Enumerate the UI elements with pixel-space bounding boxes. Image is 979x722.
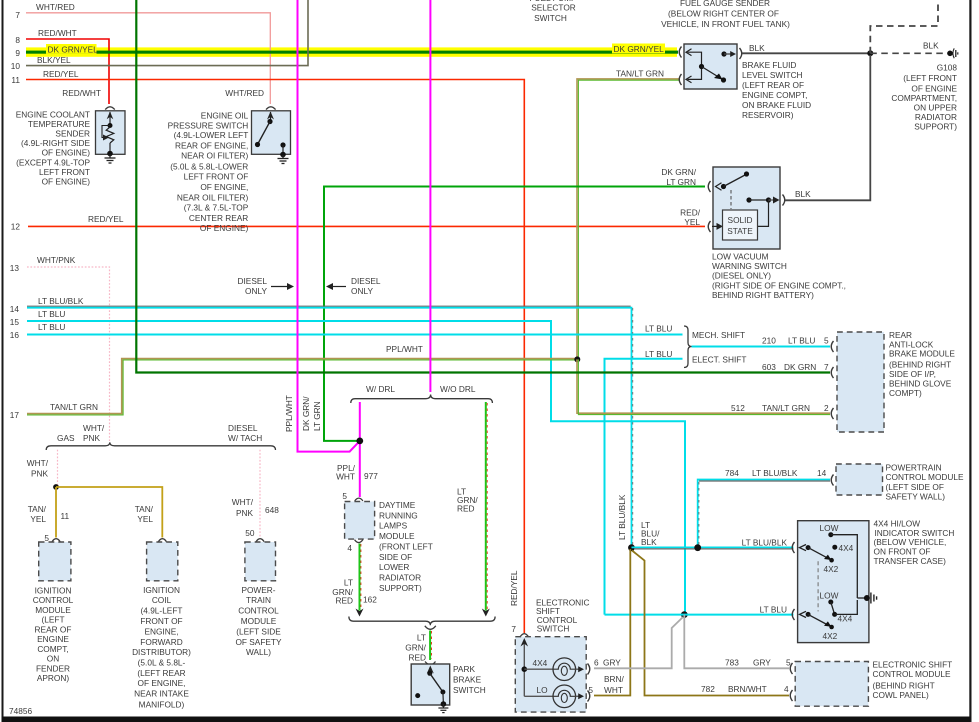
svg-text:TRAIN: TRAIN bbox=[246, 595, 271, 605]
svg-text:977: 977 bbox=[364, 471, 378, 481]
svg-text:SENDER: SENDER bbox=[55, 129, 90, 139]
svg-text:SWITCH: SWITCH bbox=[537, 624, 570, 634]
RED/YEL label at low vacuum switch bbox=[680, 208, 701, 228]
wire 13 WHT/PNK dotted bbox=[27, 267, 110, 441]
svg-text:14: 14 bbox=[10, 304, 20, 314]
svg-text:FORWARD: FORWARD bbox=[140, 637, 182, 647]
svg-text:MODULE: MODULE bbox=[35, 605, 71, 615]
svg-text:SIDE OF I/P,: SIDE OF I/P, bbox=[889, 369, 936, 379]
svg-text:LT BLU: LT BLU bbox=[38, 309, 65, 319]
connector end dot bbox=[947, 48, 958, 58]
svg-text:LT BLU/BLK: LT BLU/BLK bbox=[752, 468, 798, 478]
pin arc RABM pin 5 bbox=[831, 341, 833, 352]
wire TAN/LT GRN from brake fluid switch bbox=[577, 79, 680, 358]
svg-text:RED/YEL: RED/YEL bbox=[88, 214, 124, 224]
svg-text:COWL PANEL): COWL PANEL) bbox=[873, 690, 929, 700]
svg-text:4: 4 bbox=[347, 543, 352, 553]
svg-text:LT BLU/BLK: LT BLU/BLK bbox=[38, 296, 84, 306]
svg-text:TAN/LT GRN: TAN/LT GRN bbox=[762, 403, 810, 413]
svg-text:7: 7 bbox=[511, 624, 516, 634]
svg-text:DIESEL: DIESEL bbox=[351, 276, 381, 286]
svg-text:DK GRN/YEL: DK GRN/YEL bbox=[48, 44, 99, 54]
svg-text:(4.9L-LEFT: (4.9L-LEFT bbox=[141, 606, 183, 616]
pin arc 4x4 switch bottom bbox=[792, 609, 794, 620]
svg-text:LT GRN: LT GRN bbox=[666, 177, 696, 187]
svg-text:(LEFT REAR: (LEFT REAR bbox=[137, 668, 185, 678]
svg-text:RED/: RED/ bbox=[680, 208, 701, 218]
svg-text:SELECTOR: SELECTOR bbox=[531, 3, 576, 13]
svg-text:OF ENGINE,: OF ENGINE, bbox=[200, 182, 248, 192]
svg-text:LT GRN: LT GRN bbox=[312, 401, 322, 431]
svg-text:OF ENGINE): OF ENGINE) bbox=[42, 148, 91, 158]
svg-text:CONTROL: CONTROL bbox=[238, 606, 279, 616]
pin arc shift switch pin 6 bbox=[588, 664, 590, 675]
svg-text:OF ENGINE): OF ENGINE) bbox=[42, 177, 91, 187]
svg-text:OF SAFETY: OF SAFETY bbox=[235, 637, 282, 647]
svg-text:50: 50 bbox=[245, 528, 255, 538]
svg-text:RADIATOR: RADIATOR bbox=[915, 112, 957, 122]
svg-text:CENTER REAR: CENTER REAR bbox=[189, 213, 248, 223]
svg-text:TAN/LT GRN: TAN/LT GRN bbox=[50, 402, 98, 412]
svg-text:RED/WHT: RED/WHT bbox=[38, 28, 77, 38]
svg-text:603: 603 bbox=[762, 362, 776, 372]
wire 14 LT BLU/BLK black stripe bbox=[27, 305, 631, 307]
svg-text:IGNITION: IGNITION bbox=[143, 585, 180, 595]
svg-text:SUPPORT): SUPPORT) bbox=[379, 583, 422, 593]
svg-text:ENGINE OIL: ENGINE OIL bbox=[201, 111, 249, 121]
park brake switch box bbox=[411, 664, 450, 707]
svg-text:ENGINE COMPT,: ENGINE COMPT, bbox=[742, 90, 807, 100]
wire 15 LT BLU bbox=[27, 321, 685, 615]
svg-text:SAFETY WALL): SAFETY WALL) bbox=[886, 491, 946, 501]
svg-text:FUEL GAUGE SENDER: FUEL GAUGE SENDER bbox=[680, 0, 770, 8]
rear anti-lock brake module box bbox=[837, 332, 884, 432]
DIESEL ONLY label left with arrow bbox=[237, 276, 294, 296]
brace W DRL bbox=[351, 395, 493, 404]
svg-text:782: 782 bbox=[701, 684, 715, 694]
svg-text:MODULE: MODULE bbox=[379, 531, 415, 541]
WHT/PNK label 3 bbox=[232, 497, 254, 518]
svg-text:WHT/: WHT/ bbox=[27, 458, 49, 468]
svg-text:ON: ON bbox=[47, 654, 59, 664]
svg-text:5: 5 bbox=[588, 685, 593, 695]
brace gas/diesel bbox=[46, 442, 275, 450]
svg-text:W/ DRL: W/ DRL bbox=[366, 384, 395, 394]
LT GRN/RED label center bbox=[405, 633, 426, 663]
svg-text:VEHICLE, IN FRONT FUEL TANK): VEHICLE, IN FRONT FUEL TANK) bbox=[661, 19, 790, 29]
svg-text:(5.0L & 5.8L-: (5.0L & 5.8L- bbox=[138, 658, 186, 668]
pin arc low vacuum DK GRN bbox=[708, 181, 710, 192]
svg-text:512: 512 bbox=[731, 403, 745, 413]
svg-text:(FRONT LEFT: (FRONT LEFT bbox=[379, 541, 433, 551]
engine oil pressure switch box bbox=[252, 107, 291, 155]
electronic shift control switch label bbox=[536, 598, 589, 634]
pin arc RABM pin 7 bbox=[831, 367, 833, 378]
wire 8 RED/WHT bbox=[26, 39, 109, 104]
svg-text:CONTROL MODULE: CONTROL MODULE bbox=[873, 669, 952, 679]
svg-text:DK GRN/YEL: DK GRN/YEL bbox=[614, 44, 665, 54]
svg-text:BRN/: BRN/ bbox=[604, 674, 625, 684]
engine oil pressure switch label bbox=[168, 111, 249, 234]
pin arc PCM pin 14 bbox=[831, 475, 833, 486]
svg-text:NEAR OIL FILTER): NEAR OIL FILTER) bbox=[177, 192, 249, 202]
svg-text:(BEHIND RIGHT: (BEHIND RIGHT bbox=[889, 360, 951, 370]
wire TAN/YEL to ignition control module bbox=[55, 487, 57, 538]
red stripe DRL wire bbox=[360, 544, 362, 610]
svg-text:16: 16 bbox=[10, 330, 20, 340]
784 vertical black stripe dashes bbox=[698, 482, 700, 546]
svg-text:(5.0L & 5.8L-LOWER: (5.0L & 5.8L-LOWER bbox=[170, 161, 248, 171]
svg-text:5: 5 bbox=[824, 336, 829, 346]
svg-text:WHT/RED: WHT/RED bbox=[225, 88, 264, 98]
wire LT GRN/RED right (W/O DRL) bbox=[485, 402, 487, 611]
svg-text:WHT/RED: WHT/RED bbox=[36, 2, 75, 12]
svg-text:13: 13 bbox=[10, 263, 20, 273]
svg-text:TEMPERATURE: TEMPERATURE bbox=[28, 119, 91, 129]
svg-text:BLK: BLK bbox=[641, 537, 657, 547]
ignition coil label bbox=[132, 585, 191, 710]
pin arc powertrain control module left bbox=[256, 539, 264, 542]
svg-text:LT BLU: LT BLU bbox=[760, 604, 787, 614]
LT BLU/ BLK stacked label bbox=[641, 520, 660, 547]
wire TAN/YEL to ignition coil bbox=[56, 487, 162, 538]
svg-text:OF ENGINE,: OF ENGINE, bbox=[138, 678, 186, 688]
svg-text:DK GRN/: DK GRN/ bbox=[661, 167, 696, 177]
wire LT BLU ELECT. SHIFT bbox=[605, 359, 683, 615]
svg-text:4: 4 bbox=[784, 684, 789, 694]
wire 10 BLK/YEL bbox=[26, 0, 308, 66]
svg-text:(7.3L & 7.5L-TOP: (7.3L & 7.5L-TOP bbox=[184, 203, 249, 213]
electronic shift control module box bbox=[795, 662, 868, 707]
pin arc DRL pin 4 bbox=[355, 540, 363, 543]
svg-text:BRAKE FLUID: BRAKE FLUID bbox=[742, 60, 796, 70]
svg-text:FRONT OF: FRONT OF bbox=[140, 616, 182, 626]
svg-text:(4.9L-LOWER LEFT: (4.9L-LOWER LEFT bbox=[174, 130, 249, 140]
pin arc low vacuum BLK out bbox=[783, 195, 785, 206]
svg-text:648: 648 bbox=[265, 505, 279, 515]
svg-text:RUNNING: RUNNING bbox=[379, 510, 418, 520]
svg-text:LO: LO bbox=[537, 685, 549, 695]
svg-text:9: 9 bbox=[15, 48, 20, 58]
svg-text:RADIATOR: RADIATOR bbox=[379, 573, 421, 583]
784 black stripe bbox=[699, 480, 830, 482]
svg-text:ON BRAKE FLUID: ON BRAKE FLUID bbox=[742, 100, 811, 110]
svg-text:7: 7 bbox=[15, 10, 20, 20]
TAN/YEL label 1 bbox=[28, 504, 47, 524]
pin arc shift module pin 4 bbox=[790, 690, 792, 701]
svg-text:5: 5 bbox=[342, 491, 347, 501]
svg-text:YEL: YEL bbox=[684, 217, 700, 227]
svg-text:STATE: STATE bbox=[727, 226, 753, 236]
svg-text:(LEFT: (LEFT bbox=[41, 615, 64, 625]
svg-text:GRY: GRY bbox=[603, 658, 621, 668]
arrow down LT GRN/RED 2 bbox=[482, 609, 490, 617]
svg-text:11: 11 bbox=[61, 511, 70, 521]
svg-text:PARK: PARK bbox=[453, 664, 475, 674]
svg-text:12: 12 bbox=[11, 222, 21, 232]
wire PPL/WHT 2 vertical (W/O DRL) bbox=[429, 0, 431, 392]
wire 784 LT BLU/BLK to PCM pin 14 bbox=[698, 480, 830, 547]
wire GRY from dot3 to module pin 5 bbox=[684, 615, 789, 669]
electronic shift control module label bbox=[873, 660, 953, 701]
wire BRN/WHT from dot1 to switch pin 5 bbox=[594, 549, 630, 696]
svg-text:BLK: BLK bbox=[923, 41, 939, 51]
svg-text:LAMPS: LAMPS bbox=[379, 521, 408, 531]
ignition coil box bbox=[147, 542, 178, 581]
svg-text:4X4: 4X4 bbox=[839, 543, 854, 553]
svg-text:BLK/YEL: BLK/YEL bbox=[37, 55, 71, 65]
WHT/PNK label 2 bbox=[27, 458, 49, 479]
svg-text:PPL/WHT: PPL/WHT bbox=[284, 395, 294, 432]
svg-text:(RIGHT SIDE OF ENGINE COMPT.,: (RIGHT SIDE OF ENGINE COMPT., bbox=[712, 280, 846, 290]
svg-text:TAN/: TAN/ bbox=[135, 504, 154, 514]
wire 210 LT BLU to RABM pin 5 bbox=[692, 346, 831, 348]
wire WHT/PNK dotted to ignition bbox=[57, 450, 59, 486]
LT GRN/RED label right col bbox=[457, 487, 478, 514]
svg-text:POWER-: POWER- bbox=[241, 585, 275, 595]
low vacuum warning switch label bbox=[712, 251, 846, 300]
svg-text:ONLY: ONLY bbox=[351, 286, 373, 296]
low vacuum warning switch box bbox=[712, 167, 780, 249]
svg-text:4X2: 4X2 bbox=[824, 564, 839, 574]
svg-text:LT BLU/BLK: LT BLU/BLK bbox=[742, 537, 788, 547]
svg-text:WHT: WHT bbox=[604, 685, 623, 695]
G108 label bbox=[891, 63, 957, 132]
pin arc shift module pin 5 bbox=[790, 663, 792, 674]
svg-text:(BEHIND RIGHT: (BEHIND RIGHT bbox=[873, 681, 935, 691]
svg-text:RED/YEL: RED/YEL bbox=[43, 69, 79, 79]
svg-text:15: 15 bbox=[10, 317, 20, 327]
svg-text:W/O DRL: W/O DRL bbox=[440, 384, 476, 394]
wire BLK low vacuum to G108 bbox=[785, 55, 870, 200]
svg-text:LOW: LOW bbox=[820, 523, 839, 533]
wire BLK dashed up from junction bbox=[870, 0, 938, 53]
svg-text:RED: RED bbox=[335, 596, 353, 606]
wire WHT/PNK 648 dotted to PCM bbox=[259, 450, 261, 538]
svg-text:DIESEL: DIESEL bbox=[228, 423, 258, 433]
svg-text:MECH. SHIFT: MECH. SHIFT bbox=[692, 330, 745, 340]
svg-text:LEFT FRONT OF: LEFT FRONT OF bbox=[184, 172, 249, 182]
svg-text:COMPT,: COMPT, bbox=[37, 644, 68, 654]
svg-text:17: 17 bbox=[10, 410, 20, 420]
pin arc RABM pin 2 bbox=[831, 408, 833, 419]
svg-text:GRY: GRY bbox=[753, 658, 771, 668]
arrow down LT GRN/RED 1 bbox=[356, 609, 364, 617]
svg-text:LT BLU/BLK: LT BLU/BLK bbox=[617, 494, 627, 540]
svg-text:(LEFT SIDE: (LEFT SIDE bbox=[236, 627, 281, 637]
wire GRY from dot3 to switch pin 6 bbox=[594, 617, 683, 668]
wire 17 TAN/LT GRN bus bbox=[27, 359, 576, 414]
brake fluid level switch label bbox=[742, 60, 811, 120]
svg-text:11: 11 bbox=[11, 75, 20, 85]
svg-text:COMPT): COMPT) bbox=[889, 388, 922, 398]
LT BLU/BLK black stripe to 4x4 bbox=[634, 548, 794, 550]
node dot2 bbox=[694, 544, 701, 551]
svg-text:ENGINE: ENGINE bbox=[37, 634, 69, 644]
svg-text:WALL): WALL) bbox=[246, 647, 271, 657]
svg-text:LOW: LOW bbox=[820, 591, 839, 601]
pin arc low vacuum RED/YEL bbox=[708, 221, 710, 232]
svg-text:LT: LT bbox=[417, 633, 426, 643]
svg-text:PNK: PNK bbox=[236, 508, 254, 518]
svg-text:OF ENGINE: OF ENGINE bbox=[911, 84, 957, 94]
brake fluid level switch box bbox=[684, 44, 737, 89]
node PPL junction bbox=[356, 438, 363, 445]
svg-text:2: 2 bbox=[824, 403, 829, 413]
wire 9 DK GRN/YEL label left bbox=[46, 44, 98, 54]
svg-text:WHT: WHT bbox=[336, 472, 355, 482]
wire 7 WHT/RED bbox=[26, 13, 270, 104]
svg-text:LT BLU: LT BLU bbox=[788, 336, 815, 346]
svg-text:PNK: PNK bbox=[83, 433, 101, 443]
LT GRN/RED label left bbox=[332, 578, 353, 606]
wire LT BLU to 4x4 switch bbox=[605, 614, 794, 616]
svg-text:NEAR INTAKE: NEAR INTAKE bbox=[134, 688, 189, 698]
svg-text:REAR OF ENGINE,: REAR OF ENGINE, bbox=[175, 140, 248, 150]
svg-text:DK GRN/: DK GRN/ bbox=[301, 396, 311, 431]
ground at 4x4 switch right bbox=[871, 593, 877, 604]
svg-text:FENDER: FENDER bbox=[36, 663, 70, 673]
svg-text:74856: 74856 bbox=[9, 706, 32, 716]
svg-text:7: 7 bbox=[824, 362, 829, 372]
svg-text:CONTROL MODULE: CONTROL MODULE bbox=[886, 472, 965, 482]
svg-text:BLK: BLK bbox=[795, 189, 811, 199]
svg-text:OF ENGINE): OF ENGINE) bbox=[200, 223, 249, 233]
wire PPL/WHT vertical bbox=[298, 0, 360, 452]
svg-text:LT BLU: LT BLU bbox=[645, 349, 672, 359]
wire 11 RED/YEL bbox=[26, 80, 524, 634]
svg-text:4X4: 4X4 bbox=[838, 614, 853, 624]
PPL/WHT 977 labels bbox=[336, 463, 356, 482]
svg-text:8: 8 bbox=[15, 35, 20, 45]
svg-text:GRN/: GRN/ bbox=[405, 643, 426, 653]
svg-text:(EXCEPT 4.9L-TOP: (EXCEPT 4.9L-TOP bbox=[16, 157, 90, 167]
svg-text:(DIESEL ONLY): (DIESEL ONLY) bbox=[712, 271, 771, 281]
svg-text:SUPPORT): SUPPORT) bbox=[914, 122, 957, 132]
svg-text:210: 210 bbox=[762, 336, 776, 346]
svg-text:LOW VACUUM: LOW VACUUM bbox=[712, 251, 769, 261]
svg-text:DK GRN: DK GRN bbox=[784, 362, 816, 372]
svg-text:DAYTIME: DAYTIME bbox=[379, 500, 416, 510]
DK GRN/LT GRN label bbox=[661, 167, 696, 187]
svg-text:PPL/WHT: PPL/WHT bbox=[386, 344, 423, 354]
BRN/WHT pin 5 labels bbox=[604, 674, 625, 695]
svg-text:ELECTRONIC SHIFT: ELECTRONIC SHIFT bbox=[873, 660, 953, 670]
svg-text:G108: G108 bbox=[937, 63, 958, 73]
TAN/YEL label 2 bbox=[135, 504, 154, 524]
svg-text:BRAKE MODULE: BRAKE MODULE bbox=[889, 349, 955, 359]
svg-text:PRESSURE SWITCH: PRESSURE SWITCH bbox=[168, 120, 249, 130]
wire 9 DK GRN/YEL bus bbox=[26, 51, 678, 54]
powertrain control module label bbox=[886, 463, 965, 502]
svg-text:BEHIND GLOVE: BEHIND GLOVE bbox=[889, 379, 952, 389]
pin arc 4x4 switch top bbox=[792, 542, 794, 553]
svg-text:784: 784 bbox=[725, 468, 739, 478]
daytime running lamps module box bbox=[345, 502, 375, 540]
ground below coolant sender bbox=[105, 155, 116, 164]
svg-text:TRANSFER CASE): TRANSFER CASE) bbox=[874, 556, 947, 566]
ignition control module label bbox=[33, 585, 74, 683]
node dot1 LT BLU/BLK junction bbox=[628, 544, 635, 551]
wire 9 DK GRN/YEL label right bbox=[612, 44, 665, 54]
svg-text:APRON): APRON) bbox=[37, 673, 70, 683]
pin arc ignition control module bbox=[52, 539, 60, 542]
wire LT GRN/RED to park brake switch bbox=[429, 631, 431, 661]
wire BLK brake fluid to G108 junction bbox=[742, 52, 870, 54]
wire PPL/WHT 977 vertical bbox=[359, 402, 361, 497]
4x4 hi/low indicator switch box bbox=[798, 521, 870, 643]
DIESEL W/ TACH label bbox=[228, 423, 262, 443]
powertrain control module left box bbox=[245, 542, 276, 581]
engine coolant temperature sender box bbox=[96, 107, 126, 157]
svg-text:ON UPPER: ON UPPER bbox=[914, 103, 957, 113]
ground below park brake switch bbox=[438, 704, 448, 713]
electronic shift control switch box bbox=[515, 637, 586, 712]
svg-text:LT BLU: LT BLU bbox=[645, 324, 672, 334]
svg-text:BEHIND RIGHT BATTERY): BEHIND RIGHT BATTERY) bbox=[712, 290, 814, 300]
wire TAN/LT GRN 512 to RABM pin 2 bbox=[577, 359, 830, 413]
svg-text:MANIFOLD): MANIFOLD) bbox=[139, 699, 185, 709]
wire DK GRN/LT GRN to low vacuum switch bbox=[324, 187, 705, 441]
svg-text:BLK: BLK bbox=[749, 43, 765, 53]
svg-text:LOWER: LOWER bbox=[379, 562, 409, 572]
svg-text:NEAR OI FILTER): NEAR OI FILTER) bbox=[181, 151, 248, 161]
svg-text:6: 6 bbox=[594, 658, 599, 668]
svg-text:IGNITION: IGNITION bbox=[35, 585, 72, 595]
svg-text:(LEFT REAR OF: (LEFT REAR OF bbox=[742, 80, 804, 90]
svg-text:RED: RED bbox=[408, 653, 426, 663]
pin arc brake fluid switch BLK out bbox=[740, 48, 742, 59]
wire 12 RED/YEL bbox=[28, 225, 705, 227]
pin arc brake fluid switch pin 1 bbox=[679, 47, 681, 58]
wire 14 LT BLU/BLK bbox=[27, 308, 632, 548]
fuel gauge sender label bbox=[661, 0, 790, 29]
node junction G108 bbox=[867, 50, 873, 56]
powertrain control module left label bbox=[235, 585, 282, 657]
node dot3 LT BLU junction bbox=[681, 611, 688, 618]
svg-text:WARNING SWITCH: WARNING SWITCH bbox=[712, 261, 787, 271]
wire LT GRN/RED from DRL pin 4 bbox=[359, 544, 361, 611]
red stripe W/O DRL wire bbox=[486, 403, 488, 610]
pin arc shift switch pin 7 bbox=[520, 634, 528, 637]
pin arc DRL pin 5 bbox=[355, 498, 363, 501]
svg-text:4X2: 4X2 bbox=[823, 631, 838, 641]
svg-text:RED: RED bbox=[457, 504, 475, 514]
svg-text:COMPARTMENT,: COMPARTMENT, bbox=[891, 93, 957, 103]
svg-text:RED/YEL: RED/YEL bbox=[509, 570, 519, 606]
svg-text:ENGINE COOLANT: ENGINE COOLANT bbox=[16, 109, 90, 119]
svg-text:(4.9L-RIGHT SIDE: (4.9L-RIGHT SIDE bbox=[21, 138, 90, 148]
svg-text:ONLY: ONLY bbox=[245, 286, 267, 296]
engine coolant temperature sender label bbox=[16, 109, 91, 186]
node TAN/LT GRN junction bbox=[574, 356, 580, 362]
svg-text:RESERVOIR): RESERVOIR) bbox=[742, 110, 794, 120]
red stripe park brake wire bbox=[431, 631, 433, 659]
svg-text:SWITCH: SWITCH bbox=[534, 13, 567, 23]
svg-text:LEFT FRONT: LEFT FRONT bbox=[39, 167, 90, 177]
fuel pump selector switch label (cut off at top) bbox=[529, 0, 577, 23]
svg-text:162: 162 bbox=[363, 595, 377, 605]
svg-text:GAS: GAS bbox=[57, 433, 75, 443]
svg-text:REAR OF: REAR OF bbox=[35, 624, 72, 634]
ground below oil pressure switch bbox=[278, 152, 289, 164]
svg-text:PNK: PNK bbox=[31, 469, 49, 479]
svg-text:SWITCH: SWITCH bbox=[453, 685, 486, 695]
svg-text:WHT/PNK: WHT/PNK bbox=[37, 255, 76, 265]
frame bbox=[2, 0, 4, 722]
svg-text:DIESEL: DIESEL bbox=[237, 276, 267, 286]
svg-text:WHT/: WHT/ bbox=[83, 423, 105, 433]
